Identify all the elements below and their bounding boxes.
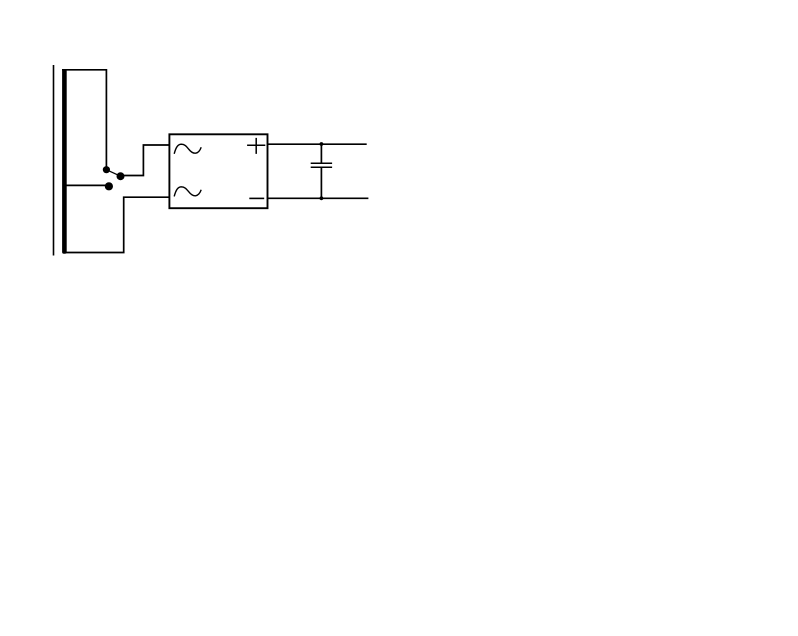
switch SW1 lever <box>106 170 120 177</box>
capacitor C1 plates <box>311 163 332 167</box>
bridge rectifier - output label <box>249 197 264 199</box>
wire: bar middle to switch lower contact <box>66 184 109 186</box>
wall/boundary line <box>53 65 55 256</box>
bridge rectifier AC symbol (top ~) <box>174 144 201 154</box>
wire: capacitor bottom lead <box>320 167 322 198</box>
node: capacitor top junction <box>320 142 324 146</box>
wire: switch common to bridge AC input 1 <box>121 145 170 176</box>
wire: negative output rail <box>268 197 369 199</box>
wire: bar top to switch top contact <box>62 70 106 167</box>
AC line bus bar <box>62 69 67 254</box>
switch SW1 top contact junction <box>103 166 110 173</box>
switch SW1 common contact junction <box>117 172 125 180</box>
bridge rectifier BR1 body <box>169 134 267 208</box>
wire: positive output rail <box>268 143 367 145</box>
bridge rectifier AC symbol (bottom ~) <box>174 187 201 197</box>
node: capacitor bottom junction <box>320 196 324 200</box>
switch SW1 lower contact junction <box>105 182 113 190</box>
wire: bar bottom to bridge AC input 2 <box>64 197 169 252</box>
bridge rectifier + output label <box>247 138 265 154</box>
wire: capacitor top lead <box>320 144 322 163</box>
